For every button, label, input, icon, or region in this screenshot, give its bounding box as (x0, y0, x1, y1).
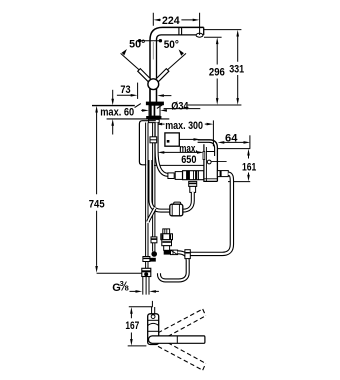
lever right handle (156, 69, 169, 82)
unit right fitting (217, 171, 228, 177)
block on supply pipe 1 (143, 257, 150, 262)
loop hose junction connector (185, 250, 190, 259)
svg-text:max. 300: max. 300 (165, 120, 203, 132)
hose connector C (168, 173, 174, 179)
dia 34 arrows (141, 109, 166, 111)
leader line from circle (211, 161, 227, 163)
supply nut G3/8 (142, 268, 151, 276)
control unit circle (207, 160, 211, 164)
lever right angle arrow (179, 49, 184, 55)
check valve body (163, 229, 170, 234)
svg-text:50°: 50° (129, 38, 145, 50)
unit bottom connector (189, 181, 197, 186)
spout arm top view (148, 336, 204, 343)
dim max 650 (164, 151, 197, 153)
swivel arm dashed upper (158, 309, 206, 340)
shank connector (150, 137, 157, 143)
control unit clip (203, 152, 205, 160)
svg-text:Ø34: Ø34 (171, 100, 188, 112)
svg-text:50°: 50° (164, 39, 179, 51)
T-bar dot right (159, 39, 162, 42)
lever left axis line (121, 53, 141, 71)
ball joint (148, 79, 159, 90)
svg-text:650: 650 (181, 154, 196, 166)
svg-text:296: 296 (209, 66, 225, 78)
spout inner contour (157, 35, 204, 103)
extension line spout top (204, 29, 241, 31)
connector on supply pipe 2 (151, 237, 157, 243)
dim 224 line (159, 19, 195, 21)
dim 224 extension lines (153, 13, 199, 35)
big C hose (159, 252, 188, 280)
lever right axis line (166, 53, 186, 71)
head tip (152, 307, 155, 314)
extension line aerator (204, 36, 222, 38)
dim 745 (96, 112, 98, 266)
svg-text:73: 73 (120, 84, 130, 96)
hose weight (174, 202, 181, 206)
T-bar dot left (138, 39, 141, 42)
hose guide bracket (139, 121, 155, 165)
check valve bottom elbow (164, 250, 171, 255)
pull-out hose open end (148, 208, 155, 222)
lever angle T-bar (139, 40, 162, 42)
control unit elbow inner (198, 142, 215, 156)
weight hose (shank to control unit through weight) (150, 160, 192, 211)
aerator (196, 33, 203, 37)
spray head body (148, 314, 159, 345)
G3/8 tail pipe (143, 277, 149, 295)
body below flange (149, 105, 160, 116)
box inner mark (167, 140, 170, 143)
box leader line (179, 138, 194, 140)
dia 34 ticks (135, 104, 164, 109)
bottom reference line 745 (97, 272, 146, 274)
spout end cap (203, 27, 205, 35)
outlet hose loop (190, 174, 232, 254)
swivel arm dashed lower (158, 339, 206, 370)
dim 331 (237, 36, 239, 99)
horizontal connector to hose (171, 250, 178, 255)
svg-text:167: 167 (125, 320, 139, 332)
svg-text:161: 161 (242, 161, 256, 173)
dim 296 (216, 44, 218, 99)
check valve E (183, 171, 204, 180)
deck bottom line (107, 118, 170, 120)
extension line deck right (188, 104, 242, 106)
reference line 650 (154, 164, 204, 166)
shank stub (149, 119, 160, 122)
dim 161 (218, 148, 251, 150)
extension bottom (128, 345, 147, 347)
svg-text:3: 3 (120, 279, 124, 288)
extension top (129, 301, 153, 307)
lower body pipe (150, 89, 157, 101)
check valve stem (164, 246, 170, 251)
hose connector D (175, 172, 182, 180)
svg-text:745: 745 (89, 198, 105, 210)
G 3/8 dim arrows (130, 290, 159, 292)
svg-text:max. 60: max. 60 (100, 106, 134, 118)
pull-out hose to box (157, 123, 169, 175)
spray head divider (179, 27, 182, 35)
supply pipe left (146, 123, 148, 269)
control unit elbow outer (198, 140, 218, 182)
supply pipe 2 elbow ball (151, 251, 157, 257)
spout outer contour (150, 27, 204, 103)
control unit body (204, 144, 218, 181)
lever left angle arrow (122, 49, 127, 55)
dim 167 (130, 313, 132, 340)
svg-text:331: 331 (229, 63, 244, 75)
base flange (146, 102, 164, 106)
lever left handle (138, 69, 151, 82)
svg-text:8: 8 (125, 284, 129, 293)
dim 224 ext faint continuation (152, 42, 154, 60)
supply pipe right (153, 123, 155, 252)
wall-mount box (165, 133, 179, 146)
dim max 300 (156, 123, 163, 126)
deck top line (92, 105, 135, 107)
mounting nut (146, 116, 161, 119)
svg-text:224: 224 (162, 15, 180, 27)
box leader arrow (194, 138, 201, 141)
